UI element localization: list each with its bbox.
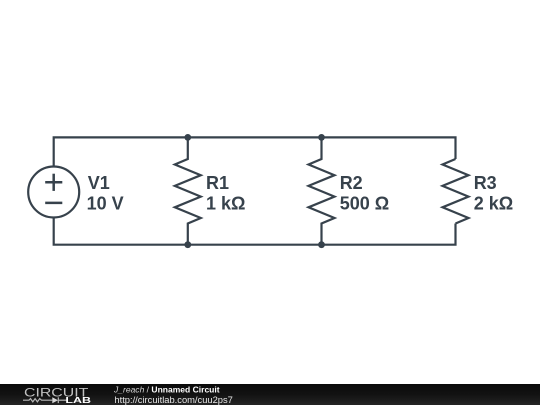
wire top rail xyxy=(54,137,456,166)
svg-text:2 kΩ: 2 kΩ xyxy=(474,193,513,213)
node dot bottom R1 xyxy=(184,241,191,248)
resistor R2 xyxy=(309,137,335,244)
node dot top R2 xyxy=(318,134,325,141)
svg-text:LAB: LAB xyxy=(65,395,91,405)
svg-text:R3: R3 xyxy=(474,173,497,193)
svg-text:10 V: 10 V xyxy=(87,193,124,213)
node dot top R1 xyxy=(184,134,191,141)
svg-text:1 kΩ: 1 kΩ xyxy=(206,193,245,213)
svg-text:http://circuitlab.com/cuu2ps7: http://circuitlab.com/cuu2ps7 xyxy=(114,395,233,405)
wire bottom rail xyxy=(54,217,456,244)
V1 plus sign xyxy=(45,174,62,203)
node dot bottom R2 xyxy=(318,241,325,248)
logo wire with resistor and diode xyxy=(23,397,67,403)
resistor R1 xyxy=(175,137,201,244)
svg-text:R2: R2 xyxy=(340,173,363,193)
voltage source V1 xyxy=(28,167,79,218)
resistor R3 xyxy=(443,159,469,224)
V1 minus sign xyxy=(45,202,62,205)
svg-text:500 Ω: 500 Ω xyxy=(340,193,389,213)
svg-text:R1: R1 xyxy=(206,173,229,193)
svg-text:V1: V1 xyxy=(88,173,110,193)
svg-text:J_reach / Unnamed Circuit: J_reach / Unnamed Circuit xyxy=(113,385,220,395)
logo diode triangle xyxy=(52,397,58,403)
